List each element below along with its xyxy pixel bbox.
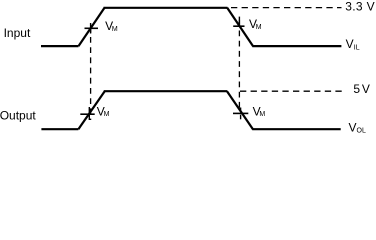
wire output falling edge bbox=[227, 91, 253, 129]
svg-text:M: M bbox=[256, 24, 262, 31]
svg-text:Output: Output bbox=[0, 109, 36, 123]
wire input rising edge bbox=[79, 8, 105, 46]
wire input falling edge bbox=[227, 8, 253, 46]
svg-text:OL: OL bbox=[357, 128, 366, 135]
svg-text:3.3 V: 3.3 V bbox=[345, 0, 375, 14]
svg-text:5: 5 bbox=[353, 82, 360, 96]
wire input low-left segment bbox=[41, 45, 79, 47]
wire output low-left segment bbox=[41, 128, 78, 130]
dashed vertical line left (input VM to output VM) bbox=[90, 23, 92, 120]
VM tick input falling bbox=[233, 25, 244, 27]
wire input high segment bbox=[104, 7, 228, 9]
VM tick output falling bbox=[233, 112, 248, 114]
wire input low-right segment bbox=[252, 45, 341, 47]
svg-text:V: V bbox=[346, 37, 354, 51]
dashed vertical line right (input VM to output VM) bbox=[238, 17, 240, 112]
svg-text:V: V bbox=[349, 121, 357, 135]
svg-text:V: V bbox=[362, 82, 370, 96]
VM tick input rising bbox=[85, 27, 99, 29]
wire output low-right segment bbox=[252, 128, 341, 130]
svg-text:IL: IL bbox=[354, 45, 360, 52]
wire output rising edge bbox=[78, 91, 104, 129]
dashed 3.3V reference line bbox=[231, 7, 342, 9]
wire output high segment bbox=[104, 90, 228, 92]
VM tick output rising bbox=[80, 113, 94, 115]
svg-text:Input: Input bbox=[4, 26, 31, 40]
svg-text:M: M bbox=[104, 111, 110, 118]
svg-text:M: M bbox=[259, 111, 265, 118]
svg-text:M: M bbox=[112, 26, 118, 33]
dashed 5V reference line bbox=[240, 90, 343, 92]
